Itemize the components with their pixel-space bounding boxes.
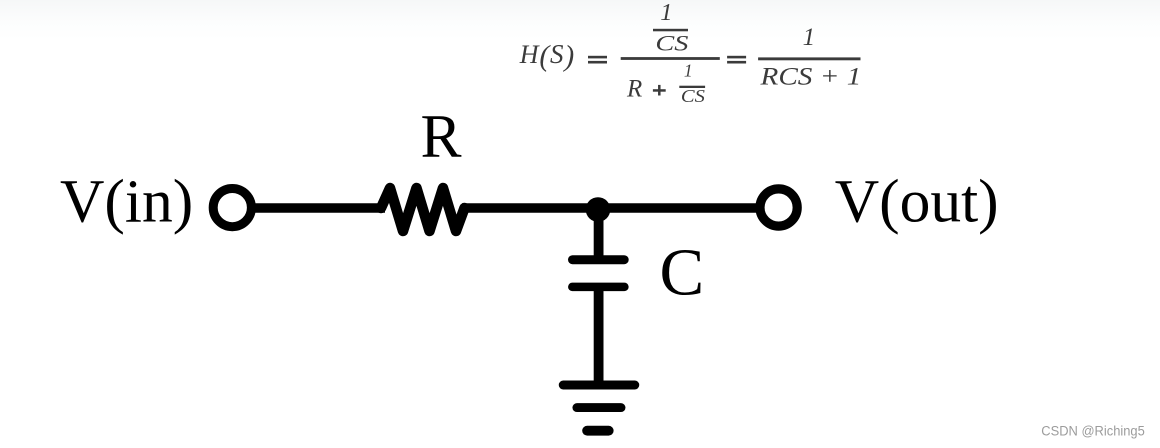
resistor R	[381, 188, 465, 231]
wire resistor to node	[462, 203, 598, 213]
capacitor C top plate	[573, 255, 625, 264]
svg-text:R: R	[626, 75, 642, 102]
formula fraction (1/CS)/(R+1/CS)	[621, 0, 720, 106]
terminal V(out)	[760, 189, 797, 226]
node junction dot	[586, 197, 611, 222]
svg-text:R: R	[420, 102, 461, 170]
svg-text:CSDN @Riching5: CSDN @Riching5	[1041, 424, 1145, 439]
svg-text:V(in): V(in)	[60, 168, 193, 236]
svg-text:C: C	[660, 236, 705, 310]
formula = 1/(RCS+1)	[727, 24, 861, 91]
wire node down to capacitor	[594, 209, 604, 258]
svg-text:RCS + 1: RCS + 1	[759, 62, 861, 91]
svg-text:1: 1	[660, 0, 672, 26]
svg-text:1: 1	[803, 24, 816, 51]
ground bar 2	[577, 403, 621, 412]
svg-text:1: 1	[684, 61, 693, 81]
ground bar 1	[563, 381, 635, 390]
wire node to output	[598, 203, 758, 213]
wire capacitor to ground	[594, 288, 604, 382]
svg-text:CS: CS	[655, 31, 688, 56]
terminal V(in)	[213, 189, 251, 227]
svg-text:CS: CS	[681, 86, 705, 106]
ground bar 3	[587, 426, 609, 436]
svg-text:V(out): V(out)	[835, 168, 999, 236]
wire input to resistor	[252, 203, 385, 213]
formula H(S)=	[519, 39, 607, 72]
capacitor C bottom plate	[572, 283, 624, 292]
svg-text:H(S): H(S)	[519, 39, 575, 72]
